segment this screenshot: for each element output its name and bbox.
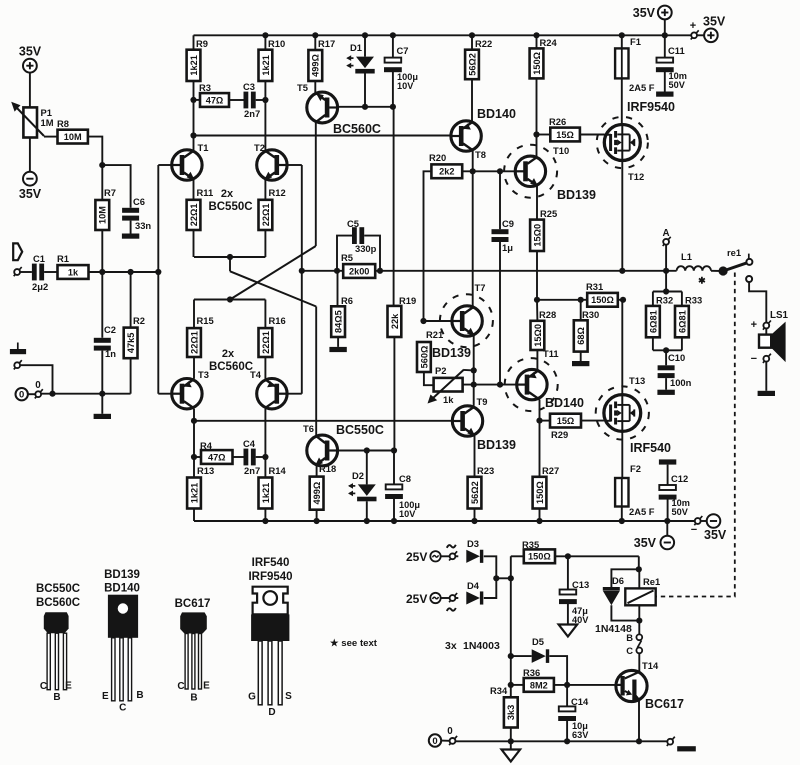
wire T14 emitter xyxy=(638,699,640,741)
wire xyxy=(101,394,103,414)
svg-text:T1: T1 xyxy=(198,142,209,153)
dashed ring T7 xyxy=(440,294,493,347)
svg-text:T9: T9 xyxy=(477,396,488,407)
svg-text:R19: R19 xyxy=(399,295,416,306)
junction xyxy=(533,32,539,38)
junction xyxy=(262,454,268,460)
terminal +35V circle top left xyxy=(23,59,37,73)
svg-text:BD140: BD140 xyxy=(104,583,140,595)
junction xyxy=(471,518,477,524)
svg-text:BC560C: BC560C xyxy=(333,122,381,136)
wire xyxy=(101,272,103,338)
wire xyxy=(130,272,132,328)
svg-text:T14: T14 xyxy=(642,660,659,671)
ground triangle xyxy=(559,625,578,637)
ground triangle xyxy=(502,750,521,762)
wire xyxy=(652,292,654,306)
junction xyxy=(334,268,340,274)
transistor T10 xyxy=(515,156,545,186)
diode D2 LED xyxy=(358,484,376,496)
wire T13 source xyxy=(621,431,623,478)
svg-text:1k21: 1k21 xyxy=(261,483,271,503)
svg-text:R26: R26 xyxy=(549,116,566,127)
svg-text:R21: R21 xyxy=(426,329,443,340)
junction xyxy=(190,132,196,138)
wire xyxy=(264,509,266,522)
svg-text:0: 0 xyxy=(432,736,437,747)
svg-text:R27: R27 xyxy=(542,465,559,476)
wire xyxy=(580,300,582,321)
wire xyxy=(441,740,449,742)
wire wiper link xyxy=(464,369,474,372)
wire xyxy=(424,320,452,322)
svg-text:D3: D3 xyxy=(467,538,479,549)
wire xyxy=(229,99,244,101)
wire xyxy=(314,35,316,50)
wire xyxy=(462,170,516,172)
terminal xyxy=(449,551,457,560)
svg-text:T8: T8 xyxy=(475,149,486,160)
wire xyxy=(393,451,395,485)
svg-text:C10: C10 xyxy=(668,352,685,363)
svg-text:499Ω: 499Ω xyxy=(311,54,321,77)
svg-text:T7: T7 xyxy=(475,282,486,293)
wire xyxy=(102,165,130,208)
svg-text:10M: 10M xyxy=(64,132,82,142)
input symbol xyxy=(13,243,22,260)
junction xyxy=(262,32,268,38)
wire xyxy=(193,509,195,522)
junction xyxy=(663,288,669,294)
svg-text:330p: 330p xyxy=(355,243,377,254)
tilde xyxy=(447,545,456,548)
terminal slash psu xyxy=(449,736,457,745)
ground xyxy=(659,459,676,464)
wire ground line xyxy=(41,393,131,395)
junction xyxy=(497,382,503,388)
svg-text:F2: F2 xyxy=(630,463,641,474)
svg-text:T3: T3 xyxy=(198,369,209,380)
wire xyxy=(256,99,266,101)
wire xyxy=(315,123,317,246)
wire xyxy=(664,19,666,35)
svg-text:T13: T13 xyxy=(629,375,645,386)
svg-text:R36: R36 xyxy=(523,667,540,678)
wire xyxy=(158,393,173,395)
svg-text:BD140: BD140 xyxy=(477,107,516,121)
junction xyxy=(262,518,268,524)
wire T8 emitter xyxy=(472,151,474,306)
junction xyxy=(299,268,305,274)
capacitor C14 xyxy=(559,706,576,711)
svg-text:T12: T12 xyxy=(628,171,644,182)
svg-text:IRF540: IRF540 xyxy=(630,441,671,455)
resistor R29 xyxy=(550,414,581,428)
dashed ring T12 xyxy=(597,117,648,168)
svg-text:15Ω0: 15Ω0 xyxy=(533,324,543,347)
wire xyxy=(29,138,31,172)
svg-text:R13: R13 xyxy=(197,465,214,476)
capacitor C8 xyxy=(386,484,403,489)
wire xyxy=(392,35,394,57)
svg-text:35V: 35V xyxy=(704,528,727,542)
resistor R15 xyxy=(187,328,201,357)
wire xyxy=(666,521,668,536)
junction xyxy=(564,738,570,744)
svg-text:47Ω: 47Ω xyxy=(206,95,224,105)
svg-text:T5: T5 xyxy=(297,82,308,93)
svg-text:✱: ✱ xyxy=(698,276,706,286)
svg-text:35V: 35V xyxy=(19,187,42,201)
transistor T5 xyxy=(307,92,338,123)
svg-text:BC550C: BC550C xyxy=(336,423,384,437)
wire xyxy=(264,357,266,379)
svg-text:35V: 35V xyxy=(634,536,657,550)
svg-text:R22: R22 xyxy=(475,38,492,49)
svg-text:BC617: BC617 xyxy=(645,697,684,711)
svg-text:56Ω2: 56Ω2 xyxy=(470,481,480,504)
potentiometer P1 xyxy=(11,102,44,138)
svg-text:C12: C12 xyxy=(671,473,688,484)
junction xyxy=(636,566,642,572)
svg-text:E: E xyxy=(203,681,210,692)
wire xyxy=(441,597,450,599)
wire xyxy=(44,271,57,273)
terminal slash xyxy=(694,516,702,525)
diode D5 xyxy=(532,649,546,663)
ground xyxy=(677,746,696,751)
wire xyxy=(510,728,512,742)
dashed ring T13 xyxy=(596,386,649,439)
ground xyxy=(10,349,26,354)
junction xyxy=(99,269,105,275)
wire xyxy=(392,71,394,106)
junction xyxy=(99,391,105,397)
wire xyxy=(611,569,638,587)
resistor R7 xyxy=(95,200,109,230)
svg-text:A: A xyxy=(662,228,669,239)
svg-text:R6: R6 xyxy=(341,295,353,306)
svg-text:10V: 10V xyxy=(397,81,414,91)
wire xyxy=(638,621,640,635)
wire xyxy=(455,555,458,557)
svg-text:IRF9540: IRF9540 xyxy=(248,571,292,583)
wire xyxy=(101,230,103,272)
junction xyxy=(662,32,668,38)
wire xyxy=(364,74,366,107)
svg-text:3x: 3x xyxy=(445,640,457,652)
svg-text:R17: R17 xyxy=(318,38,335,49)
svg-text:6Ω81: 6Ω81 xyxy=(648,310,658,333)
svg-text:R34: R34 xyxy=(490,685,508,696)
wire xyxy=(566,720,568,741)
wire xyxy=(667,465,669,485)
svg-text:R24: R24 xyxy=(540,37,558,48)
wire xyxy=(194,456,201,458)
svg-text:0: 0 xyxy=(447,726,453,737)
mosfet T12 xyxy=(604,125,640,161)
svg-text:100n: 100n xyxy=(670,377,692,388)
svg-text:R25: R25 xyxy=(540,208,557,219)
wire xyxy=(337,236,352,271)
resistor R14 xyxy=(259,478,273,509)
wire xyxy=(193,357,195,379)
wire xyxy=(496,577,511,579)
svg-text:1μ: 1μ xyxy=(502,242,513,253)
svg-text:1k21: 1k21 xyxy=(189,483,199,503)
resistor R27 xyxy=(533,477,547,509)
svg-text:C: C xyxy=(119,703,126,714)
ac source lower xyxy=(430,593,440,603)
svg-text:BD139: BD139 xyxy=(557,188,596,202)
svg-text:1M: 1M xyxy=(41,117,54,128)
svg-text:35V: 35V xyxy=(703,15,726,29)
resistor R5 xyxy=(343,264,375,278)
junction xyxy=(470,168,476,174)
transistor T6 xyxy=(307,435,338,466)
svg-text:IRF9540: IRF9540 xyxy=(627,100,675,114)
svg-text:+: + xyxy=(690,20,696,32)
junction xyxy=(191,454,197,460)
resistor R23 xyxy=(468,477,482,509)
diode D3 xyxy=(466,550,480,563)
wire R32 R33 top bus xyxy=(653,291,682,293)
svg-text:BD139: BD139 xyxy=(477,438,516,452)
junction xyxy=(663,347,669,353)
junction xyxy=(49,391,55,397)
transistor T7 xyxy=(452,306,482,336)
svg-text:0: 0 xyxy=(19,390,24,401)
svg-text:+: + xyxy=(751,319,757,331)
speaker plus terminal xyxy=(763,321,771,330)
svg-text:68Ω: 68Ω xyxy=(576,327,586,345)
capacitor C9 xyxy=(492,229,509,234)
wire T9 emitter xyxy=(474,436,476,477)
package TO-92 BC617 xyxy=(180,612,207,633)
svg-text:2A5 F: 2A5 F xyxy=(629,506,655,517)
svg-text:R7: R7 xyxy=(104,187,116,198)
resistor R25 xyxy=(530,220,544,251)
svg-text:C9: C9 xyxy=(502,218,514,229)
wire xyxy=(567,556,569,589)
capacitor C5 xyxy=(352,227,357,244)
svg-text:25V: 25V xyxy=(406,592,427,606)
svg-text:★ see text: ★ see text xyxy=(330,638,378,649)
resistor R19 xyxy=(388,306,402,337)
ground xyxy=(572,361,589,366)
wire xyxy=(618,299,623,301)
terminal slash psu right xyxy=(667,737,675,746)
wire xyxy=(233,456,244,458)
wire xyxy=(130,221,132,234)
resistor R12 xyxy=(259,200,273,230)
svg-text:R2: R2 xyxy=(133,315,145,326)
junction xyxy=(536,518,542,524)
resistor R6 xyxy=(331,306,345,337)
wire xyxy=(638,556,640,569)
junction xyxy=(420,318,426,324)
terminal +35V top xyxy=(658,6,672,20)
svg-text:B: B xyxy=(136,690,143,701)
wire xyxy=(536,251,538,300)
junction xyxy=(564,682,570,688)
junction xyxy=(565,553,571,559)
diode D1 LED xyxy=(356,57,374,69)
svg-text:1n: 1n xyxy=(105,348,116,359)
tilde xyxy=(447,608,456,611)
resistor R10 xyxy=(259,50,273,81)
svg-text:S: S xyxy=(285,691,292,702)
junction xyxy=(663,268,669,274)
svg-text:R31: R31 xyxy=(586,281,603,292)
junction xyxy=(377,268,383,274)
resistor R35 xyxy=(524,549,555,563)
svg-text:R5: R5 xyxy=(341,252,353,263)
junction xyxy=(620,297,626,303)
wire xyxy=(567,603,569,624)
wire xyxy=(88,137,102,166)
loudspeaker LS1 xyxy=(771,322,785,363)
svg-text:150Ω: 150Ω xyxy=(532,52,542,75)
svg-text:R9: R9 xyxy=(196,38,208,49)
capacitor C11 xyxy=(657,58,674,63)
junction xyxy=(190,97,196,103)
wire xyxy=(549,656,567,685)
resistor R34 xyxy=(504,697,518,727)
svg-text:2k2: 2k2 xyxy=(439,167,454,177)
wire output rail xyxy=(375,270,676,272)
svg-text:6Ω81: 6Ω81 xyxy=(677,310,687,333)
wire T12 source xyxy=(621,161,623,271)
wire xyxy=(229,257,231,271)
svg-text:B: B xyxy=(626,632,633,643)
wire xyxy=(264,81,266,151)
junction xyxy=(664,518,670,524)
svg-text:R23: R23 xyxy=(477,465,494,476)
connector B xyxy=(636,634,642,640)
svg-text:63V: 63V xyxy=(572,730,589,740)
svg-text:15Ω: 15Ω xyxy=(557,416,575,426)
wire upper emitter bus xyxy=(194,256,265,258)
wire xyxy=(580,134,605,136)
wire xyxy=(158,164,173,166)
svg-text:D6: D6 xyxy=(612,575,624,586)
junction xyxy=(262,97,268,103)
wire xyxy=(130,358,132,394)
wire xyxy=(555,555,639,557)
resistor R2 xyxy=(124,328,138,359)
svg-text:C2: C2 xyxy=(104,324,116,335)
svg-text:22k: 22k xyxy=(390,313,400,329)
svg-text:10V: 10V xyxy=(399,509,416,519)
wire T2 base xyxy=(287,164,302,166)
junction xyxy=(364,447,370,453)
resistor R11 xyxy=(187,200,201,230)
speaker minus terminal xyxy=(763,354,771,363)
junction xyxy=(364,518,370,524)
ground xyxy=(94,414,111,419)
svg-text:R15: R15 xyxy=(197,315,214,326)
connector slash xyxy=(637,640,641,647)
svg-text:D1: D1 xyxy=(350,42,362,53)
resistor R9 xyxy=(187,50,201,81)
junction xyxy=(471,382,477,388)
svg-text:47Ω: 47Ω xyxy=(208,452,226,462)
svg-text:1N4003: 1N4003 xyxy=(463,640,500,652)
ac source upper xyxy=(430,551,440,561)
wire T6 collector line xyxy=(338,450,394,452)
svg-text:2x: 2x xyxy=(222,348,235,360)
diode D4 xyxy=(466,591,480,604)
resistor R1 xyxy=(58,265,89,279)
wire T3 collector xyxy=(193,409,195,478)
wire PSU ground rail xyxy=(455,740,667,742)
resistor R17 xyxy=(308,50,322,81)
wire xyxy=(581,420,604,422)
junction xyxy=(536,418,542,424)
wire xyxy=(20,271,32,273)
svg-text:499Ω: 499Ω xyxy=(312,482,322,505)
svg-text:C13: C13 xyxy=(572,579,589,590)
junction xyxy=(636,618,642,624)
wire xyxy=(337,337,339,347)
chassis terminal xyxy=(14,360,22,369)
svg-text:LS1: LS1 xyxy=(770,310,789,321)
svg-text:22Ω1: 22Ω1 xyxy=(261,331,271,354)
wire xyxy=(264,300,266,329)
junction xyxy=(619,268,625,274)
wire xyxy=(364,236,380,271)
inductor L1 xyxy=(677,266,711,271)
junction xyxy=(155,269,161,275)
wire xyxy=(540,420,551,422)
svg-text:22Ω1: 22Ω1 xyxy=(261,204,271,227)
svg-text:50V: 50V xyxy=(672,507,689,517)
wire xyxy=(499,171,501,229)
diode D6 xyxy=(603,587,620,591)
resistor R26 xyxy=(550,128,580,142)
wire xyxy=(511,655,532,657)
wire xyxy=(393,337,395,451)
svg-text:0: 0 xyxy=(35,380,41,391)
terminal +35V right xyxy=(704,29,718,43)
relay Re1 xyxy=(625,588,655,605)
wire T10 emitter xyxy=(536,186,538,220)
resistor R22 xyxy=(465,50,479,79)
svg-text:C3: C3 xyxy=(243,81,255,92)
svg-text:2n7: 2n7 xyxy=(244,465,260,476)
svg-text:150Ω: 150Ω xyxy=(528,552,551,562)
wire xyxy=(264,35,266,49)
svg-text:R1: R1 xyxy=(57,253,69,264)
wire xyxy=(499,242,501,385)
wire xyxy=(621,300,623,395)
svg-text:BC560C: BC560C xyxy=(209,361,253,373)
wire T1 T3 base rail xyxy=(157,165,159,394)
resistor R20 xyxy=(431,164,462,178)
svg-text:T10: T10 xyxy=(553,145,569,156)
junction xyxy=(534,297,540,303)
svg-text:B: B xyxy=(190,693,197,704)
junction xyxy=(362,104,368,110)
svg-text:D5: D5 xyxy=(532,636,544,647)
wire -35V rail xyxy=(194,520,695,522)
wire xyxy=(193,230,195,257)
wire xyxy=(264,180,266,200)
svg-text:C14: C14 xyxy=(571,696,589,707)
node A terminal xyxy=(663,237,671,246)
resistor R8 xyxy=(58,130,88,144)
